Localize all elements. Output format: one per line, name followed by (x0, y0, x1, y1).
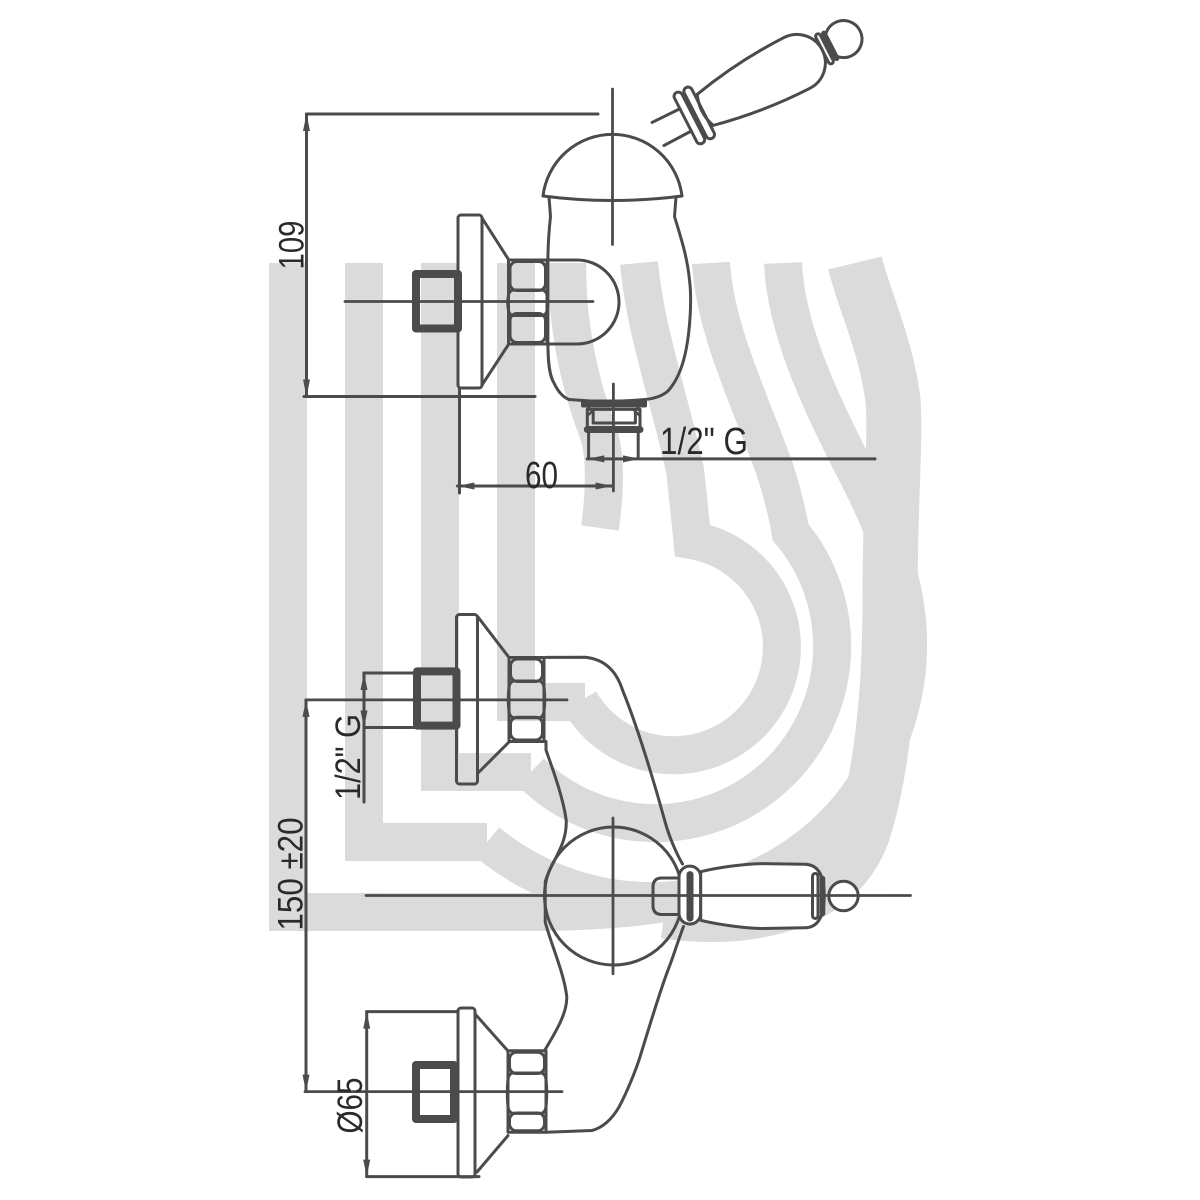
watermark logo B (288, 263, 908, 915)
watermark ring C with feeder (487, 263, 908, 901)
top view vertical centerline (611, 89, 614, 245)
top view horizontal centerline (345, 300, 593, 303)
svg-text:150 ±20: 150 ±20 (272, 818, 311, 931)
svg-text:1/2" G: 1/2" G (329, 714, 368, 800)
outlet pipe (589, 433, 639, 458)
dim 60 line (457, 485, 612, 488)
dim 1/2G top view leader (587, 457, 875, 460)
outlet nut (587, 409, 640, 429)
svg-text:Ø65: Ø65 (331, 1078, 370, 1134)
watermark stem 1 + bottom band (288, 263, 692, 912)
outlet nut inner thread lines (593, 412, 635, 423)
hex nut middle face barrel (508, 290, 548, 316)
handle collar dark band (687, 875, 694, 919)
horizontal axis line (bottom view) (366, 894, 911, 897)
dim O65 extension bottom (367, 1175, 479, 1178)
dim 109 line (305, 114, 308, 397)
handle knob collar (bottom view) (813, 874, 819, 919)
dim 150 line (305, 700, 308, 1092)
handle knob ball (819, 14, 869, 64)
bottom flange cone slants (476, 1015, 508, 1051)
svg-text:1/2" G: 1/2" G (660, 421, 748, 463)
svg-text:109: 109 (273, 221, 312, 270)
top flange axis line (306, 699, 567, 702)
dim 60 extension left (458, 388, 461, 493)
dome bottom rim (543, 196, 682, 201)
bottom flange axis line (305, 1090, 562, 1093)
dim 60 arrow left (457, 483, 474, 490)
shoulder top edge (546, 657, 623, 690)
handle lever body (689, 25, 835, 137)
nut top face barrel (511, 659, 543, 682)
body outline left (548, 197, 569, 400)
dim 150 arrow down (303, 1075, 310, 1092)
top flange plate (bottom view) (457, 615, 478, 785)
dim O65 line (365, 1012, 368, 1177)
watermark stem 2 + bottom band (364, 263, 487, 842)
right outline lower (546, 927, 684, 1133)
left outline (545, 742, 567, 1051)
hex nut bottom face barrel (510, 314, 546, 343)
handle lever (bottom view) (701, 864, 825, 929)
wall flange cone slant top (top view) (482, 218, 509, 260)
watermark stem 4 + bottom band (516, 263, 585, 702)
nut middle face barrel (508, 681, 545, 718)
body bottom edge (569, 400, 645, 402)
nut bottom face barrel (510, 1113, 545, 1131)
outlet nut corner chamfer ticks (588, 410, 639, 415)
outlet washer plate (583, 402, 645, 406)
dim O65 arrow up (363, 1012, 370, 1029)
top hex nut (bottom view) (509, 658, 544, 742)
dim 1/2G BV arrow down (361, 711, 368, 728)
watermark outer band D (665, 263, 894, 915)
handle boss (bottom view) (653, 878, 679, 915)
outlet nut bold bottom band (587, 426, 640, 433)
dim O65 extension top (367, 1010, 458, 1013)
hex nut outline (top view) (509, 260, 548, 344)
nut bottom face barrel (511, 717, 543, 740)
top eccentric nipple (bold) (417, 671, 457, 725)
dim 109 extension top (307, 113, 599, 116)
dim 1/2G BV arrow up (361, 673, 368, 690)
watermark ring A with feeder (580, 263, 782, 755)
hex nut top face barrel (510, 262, 546, 291)
wall flange cone slant bottom (top view) (482, 345, 509, 386)
dim 109 extension bottom (304, 395, 535, 398)
nut middle face barrel (507, 1073, 547, 1113)
outlet neck (589, 406, 639, 410)
bottom eccentric nipple (bold) (416, 1065, 454, 1119)
dim 60 arrow right (596, 483, 613, 490)
dim 1/2G arrow right (623, 455, 640, 462)
watermark ring B with feeder (531, 263, 832, 823)
top flange cone slants (478, 617, 509, 658)
cartridge boss D-shape (548, 260, 619, 344)
svg-text:60: 60 (525, 455, 558, 497)
big circle cartridge cap (545, 827, 683, 965)
bottom hex nut (508, 1051, 546, 1133)
dim 150 arrow up (303, 700, 310, 717)
outlet centerline (612, 384, 615, 491)
vertical centerline (bottom view) (612, 818, 615, 974)
handle knob collar (815, 33, 834, 65)
top supply pipe (bottom view) (364, 673, 417, 728)
watermark inner top band (567, 263, 604, 528)
handle knob ball (bottom view) (829, 881, 858, 910)
nut top face barrel (510, 1052, 545, 1073)
dim O65 arrow down (363, 1160, 370, 1177)
handle neck (652, 108, 680, 123)
dim 1/2G arrow left (587, 455, 604, 462)
dome cap (543, 134, 682, 196)
watermark stem 3 + bottom band (440, 263, 531, 772)
dim 1/2G (bottom view) line (363, 673, 366, 802)
dim 109 arrow down (303, 380, 310, 397)
handle base collar ring 1 (673, 91, 707, 146)
handle collar (bottom view) (679, 866, 701, 924)
dim 109 arrow up (303, 114, 310, 131)
bottom flange plate (458, 1008, 475, 1177)
handle base collar ring 2 (682, 86, 716, 141)
wall flange plate (top view) (458, 215, 482, 388)
body outline right (645, 197, 691, 400)
handle (top view) (645, 5, 873, 159)
eccentric nipple (top view, bold) (416, 274, 458, 329)
right outline upper (623, 690, 683, 864)
